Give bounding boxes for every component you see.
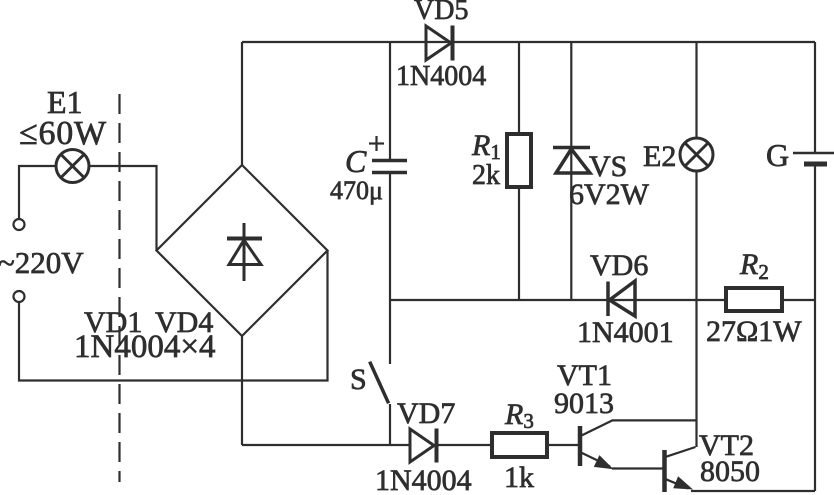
svg-text:6V2W: 6V2W xyxy=(569,178,650,211)
bridge internal diode xyxy=(227,223,262,281)
wire bottom rail left xyxy=(242,444,410,446)
svg-text:G: G xyxy=(766,137,789,173)
svg-text:S: S xyxy=(350,363,367,396)
lamp E1 xyxy=(56,150,89,183)
capacitor C xyxy=(389,42,391,159)
dashed boundary line xyxy=(118,94,120,482)
svg-text:9013: 9013 xyxy=(554,387,614,420)
wire bridge bottom drop xyxy=(241,336,243,445)
resistor R2 xyxy=(726,288,782,311)
wire lamp E1 left lead xyxy=(19,166,56,219)
svg-text:VD7: VD7 xyxy=(397,397,455,430)
terminal 1 xyxy=(14,219,25,230)
diode VD6 xyxy=(608,281,635,316)
svg-text:C: C xyxy=(345,143,367,179)
switch S xyxy=(389,300,391,364)
svg-text:VD5: VD5 xyxy=(414,0,468,26)
svg-text:E2: E2 xyxy=(643,140,676,173)
svg-text:1N4001: 1N4001 xyxy=(577,316,674,349)
wire VD7 to R3 xyxy=(437,444,492,446)
svg-text:470μ: 470μ xyxy=(330,176,383,205)
plus sign of C xyxy=(369,142,384,144)
svg-text:8050: 8050 xyxy=(700,455,760,488)
svg-text:≤60W: ≤60W xyxy=(19,115,107,152)
zener diode VS xyxy=(570,42,572,300)
transistor VT1 xyxy=(578,426,583,466)
svg-text:1N4004: 1N4004 xyxy=(375,464,472,495)
terminal 2 xyxy=(14,291,25,302)
svg-text:R1: R1 xyxy=(471,129,501,164)
bridge rectifier VD1-VD4 diamond xyxy=(157,165,328,336)
wire R3 to VT1 base xyxy=(547,444,578,446)
transistor VT2 xyxy=(662,450,667,492)
svg-text:27Ω1W: 27Ω1W xyxy=(706,315,802,348)
svg-text:2k: 2k xyxy=(472,160,500,191)
diode VD5 xyxy=(426,26,453,61)
svg-text:VD6: VD6 xyxy=(590,249,648,282)
svg-text:1k: 1k xyxy=(504,461,534,494)
wire lamp E1 right lead to bridge left vertex xyxy=(89,166,157,251)
wire top rail xyxy=(242,41,815,43)
resistor R3 xyxy=(492,433,547,457)
svg-text:1N4004×4: 1N4004×4 xyxy=(74,329,215,365)
wire terminal 2 to bridge right vertex xyxy=(19,251,328,381)
battery G xyxy=(814,42,816,152)
wire middle rail xyxy=(390,299,815,301)
resistor R1 xyxy=(518,42,520,134)
svg-text:~220V: ~220V xyxy=(0,245,84,280)
svg-text:R2: R2 xyxy=(739,248,769,284)
svg-text:1N4004: 1N4004 xyxy=(396,61,486,92)
wire left drop to bridge top xyxy=(241,42,243,165)
diode VD7 xyxy=(410,429,437,463)
lamp E2 xyxy=(695,42,697,138)
svg-text:R3: R3 xyxy=(504,398,534,433)
wire bottom right xyxy=(691,490,815,492)
